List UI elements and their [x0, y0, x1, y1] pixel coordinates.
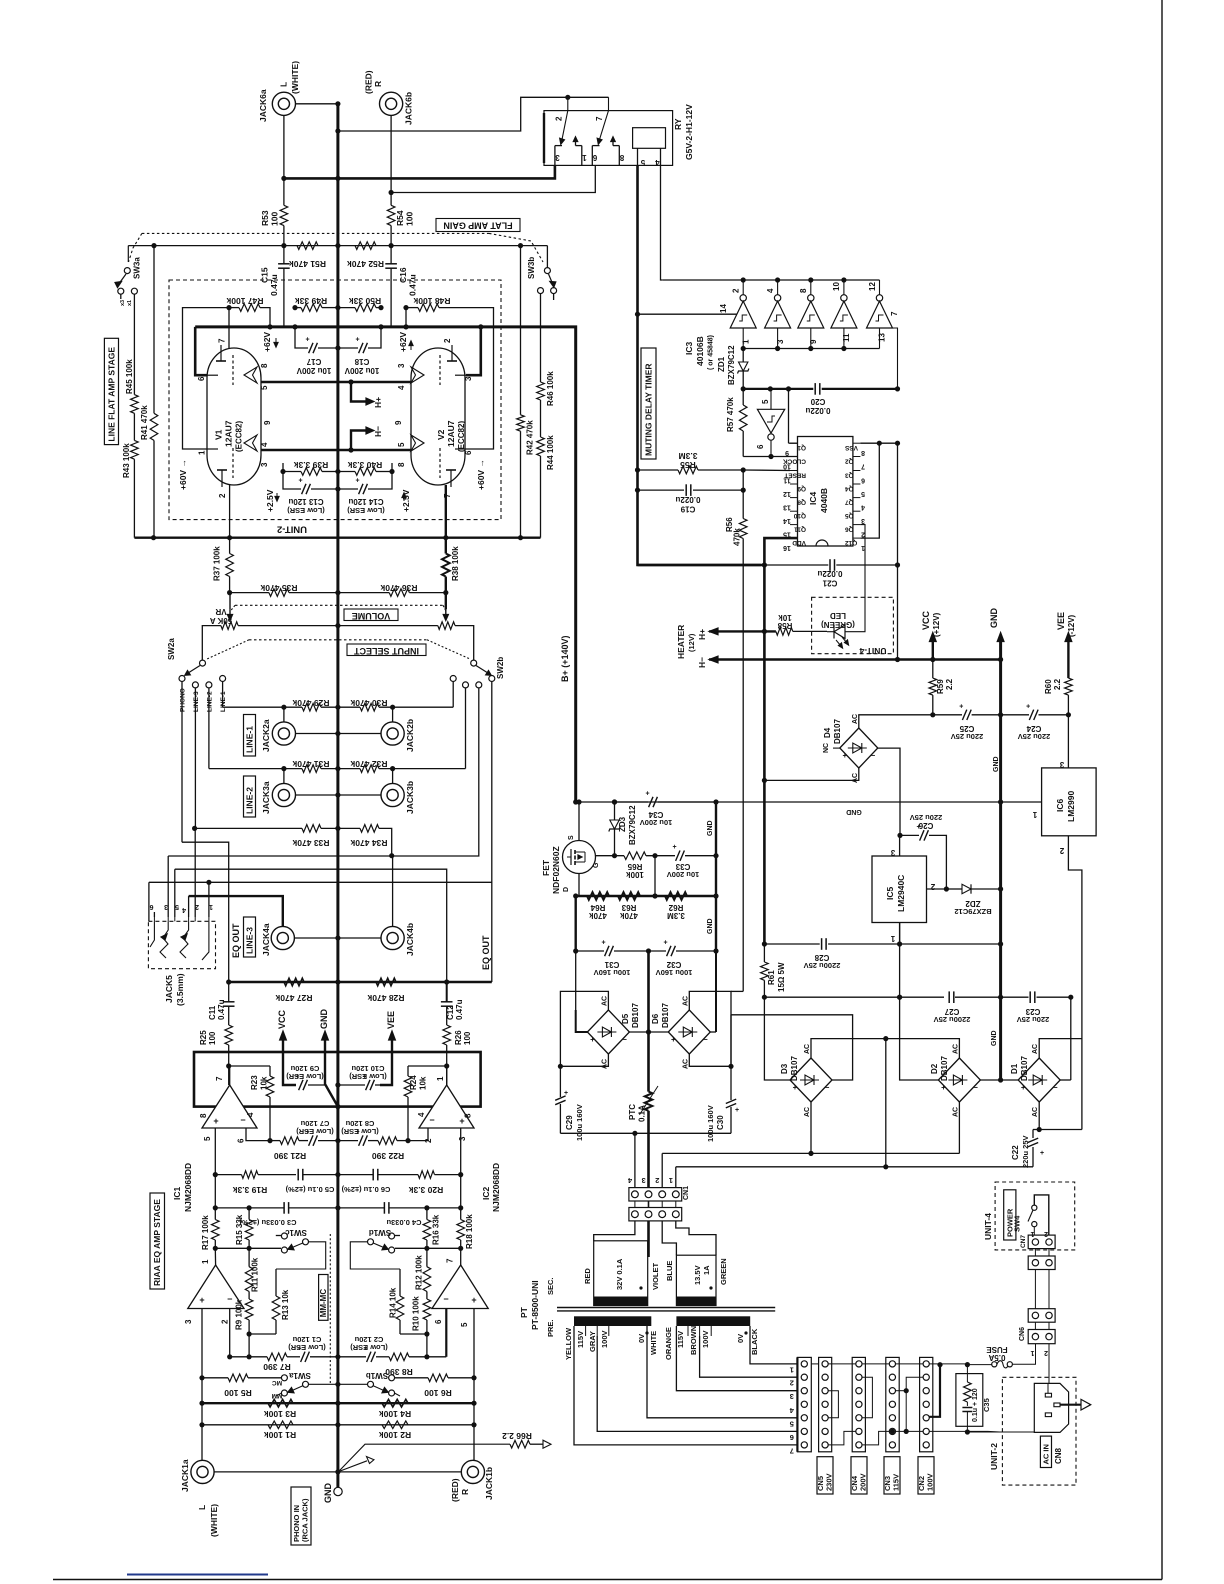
- switch SW4: [1032, 1205, 1037, 1210]
- jack JACK4a: [271, 926, 294, 949]
- wire x885 column: [885, 1039, 887, 1167]
- resistor R36: [389, 589, 409, 597]
- resistor R25: [225, 1025, 233, 1045]
- relay contact b: [600, 97, 609, 139]
- svg-text:GRAY: GRAY: [588, 1331, 597, 1352]
- svg-text:100u 160V: 100u 160V: [594, 968, 631, 977]
- svg-text:+: +: [298, 478, 302, 485]
- connector pair mid: [1028, 1309, 1055, 1323]
- svg-text:R10 100k: R10 100k: [412, 1296, 421, 1331]
- svg-text:(12V): (12V): [687, 633, 696, 652]
- jack JACK1b: [461, 1460, 484, 1483]
- svg-text:C20: C20: [810, 397, 825, 406]
- ground PHONO GND lug: [334, 1487, 342, 1495]
- svg-text:C16: C16: [398, 267, 408, 283]
- capacitor C26: [900, 834, 919, 836]
- svg-text:C11: C11: [208, 1005, 217, 1020]
- svg-text:R49 33k: R49 33k: [295, 296, 327, 306]
- wire LINE-3 row (R33/R34): [194, 688, 196, 828]
- svg-text:SW4: SW4: [1013, 1215, 1022, 1232]
- svg-text:+: +: [941, 1083, 946, 1092]
- svg-text:NJM2068DD: NJM2068DD: [183, 1163, 193, 1212]
- wire power GND bus (right vertical): [999, 637, 1002, 1080]
- svg-text:(Low ESR): (Low ESR): [296, 1127, 334, 1136]
- wire row6 to AC inlet: [988, 1430, 1000, 1433]
- svg-text:MM-MC: MM-MC: [319, 1289, 328, 1318]
- svg-text:R38 100k: R38 100k: [451, 546, 460, 581]
- svg-text:R31 470k: R31 470k: [292, 759, 329, 769]
- svg-text:(ECC82): (ECC82): [235, 421, 244, 452]
- wire D1 plus: [1001, 1079, 1019, 1081]
- svg-text:GND: GND: [991, 1030, 998, 1046]
- svg-text:3: 3: [776, 339, 785, 344]
- connector CN2: [920, 1357, 933, 1451]
- svg-text:VSS: VSS: [844, 444, 858, 451]
- svg-text:4: 4: [766, 288, 775, 293]
- svg-text:R33 470k: R33 470k: [292, 838, 329, 848]
- resistor R49: [301, 304, 322, 312]
- svg-text:R35 470k: R35 470k: [260, 583, 297, 593]
- wire main ground bus (center vertical): [336, 104, 339, 1487]
- arrow H+ supply: [709, 628, 718, 635]
- wire jack5 bundle y856: [168, 688, 479, 856]
- svg-text:100u 160V: 100u 160V: [656, 968, 693, 977]
- svg-text:+: +: [1040, 1150, 1044, 1157]
- svg-text:(Low ESR): (Low ESR): [287, 506, 325, 515]
- svg-text:D4: D4: [823, 727, 832, 738]
- inverter IC3e: [876, 295, 882, 301]
- svg-text:100V: 100V: [926, 1473, 935, 1491]
- svg-text:2: 2: [1044, 1349, 1048, 1356]
- svg-text:R20 3.3k: R20 3.3k: [408, 1185, 443, 1195]
- svg-text:100u 160V: 100u 160V: [706, 1105, 715, 1142]
- svg-text:6: 6: [592, 153, 597, 162]
- wire relay pin5 down (thick): [638, 165, 761, 565]
- resistor R61: [761, 962, 769, 980]
- svg-text:R25: R25: [199, 1030, 208, 1045]
- svg-text:C29: C29: [565, 1115, 574, 1130]
- wire ripple right rail x716: [715, 802, 717, 951]
- label LINE-3 box: [244, 917, 256, 957]
- svg-text:+: +: [459, 1116, 464, 1126]
- wire pin5 column right: [473, 1309, 475, 1378]
- svg-text:MM: MM: [272, 1392, 283, 1399]
- svg-text:9: 9: [809, 339, 818, 344]
- wire feedback row y1248: [215, 1247, 281, 1249]
- resistor R64: [587, 892, 609, 900]
- svg-text:PT: PT: [519, 1306, 529, 1318]
- svg-text:(GREEN): (GREEN): [821, 620, 855, 629]
- svg-text:GND: GND: [319, 1009, 329, 1030]
- svg-text:7: 7: [446, 1258, 455, 1263]
- wire left R41 column top: [153, 246, 155, 414]
- svg-text:AC: AC: [682, 1059, 689, 1069]
- wire IC3 pin7 down: [893, 328, 898, 389]
- op-amp IC2 unit A (top): [419, 1085, 474, 1128]
- svg-text:H+: H+: [697, 629, 707, 640]
- svg-text:D: D: [563, 887, 570, 892]
- svg-text:BROWN: BROWN: [689, 1326, 698, 1355]
- svg-text:13: 13: [783, 504, 791, 511]
- fet FET NDF02N60Z ripple: [563, 841, 596, 874]
- arrow H- supply: [709, 656, 718, 663]
- svg-text:R26: R26: [454, 1030, 463, 1045]
- arrow chassis 1: [339, 1444, 511, 1471]
- label INPUT SELECT: [249, 639, 427, 641]
- resistor R53: [280, 205, 288, 225]
- svg-text:AC: AC: [601, 1059, 608, 1069]
- svg-text:R48 100k: R48 100k: [413, 296, 450, 306]
- svg-text:4040B: 4040B: [819, 488, 829, 513]
- capacitor C2: [338, 1356, 366, 1358]
- connector CN1 row1: [629, 1188, 682, 1201]
- wire LINE-2 row: [208, 688, 210, 769]
- wire VDD trace (thick): [764, 538, 797, 944]
- wire IC3 top bus: [662, 279, 879, 281]
- resistor R7: [267, 1353, 287, 1361]
- resistor R55: [678, 466, 698, 474]
- capacitor C14: [338, 488, 358, 490]
- connector CN1 row2: [629, 1208, 682, 1221]
- svg-text:3: 3: [555, 153, 560, 162]
- svg-text:GND: GND: [323, 1483, 333, 1504]
- wire B+ row corner to V1 pin6 (thick): [195, 327, 207, 375]
- svg-text:JACK6a: JACK6a: [258, 89, 268, 122]
- svg-text:8: 8: [799, 288, 808, 293]
- svg-text:220u 25V: 220u 25V: [1017, 1015, 1050, 1024]
- jack JACK2a: [272, 722, 295, 745]
- svg-text:VCC: VCC: [277, 1009, 287, 1029]
- label FLAT AMP GAIN: [436, 219, 520, 232]
- svg-text:C30: C30: [716, 1115, 725, 1130]
- svg-text:+: +: [213, 1116, 218, 1126]
- svg-text:JACK1b: JACK1b: [484, 1467, 494, 1500]
- capacitor C21: [764, 564, 828, 566]
- svg-text:15Ω 5W: 15Ω 5W: [777, 962, 786, 992]
- IC IC4 4040B: [798, 437, 853, 547]
- svg-text:R64: R64: [590, 903, 605, 912]
- svg-text:5: 5: [761, 399, 770, 404]
- node selector contacts left: [179, 676, 185, 682]
- wire gang dotted flat-amp: [142, 232, 489, 234]
- svg-text:S: S: [568, 835, 575, 840]
- svg-text:GND: GND: [707, 918, 714, 934]
- svg-text:2: 2: [1059, 846, 1064, 855]
- svg-text:+: +: [663, 940, 667, 947]
- wire D3 minus: [731, 1015, 853, 1080]
- svg-text:6: 6: [197, 376, 206, 381]
- svg-text:SW1b: SW1b: [366, 1371, 388, 1380]
- wire gate row y855.7: [596, 855, 625, 857]
- resistor R5: [228, 1374, 248, 1382]
- jack JACK1a: [191, 1460, 214, 1483]
- svg-text:1: 1: [582, 153, 587, 162]
- svg-text:3.3M: 3.3M: [667, 911, 685, 920]
- svg-text:+: +: [355, 478, 359, 485]
- svg-text:FUSE: FUSE: [986, 1345, 1008, 1354]
- svg-text:C5 0.1u (±2%): C5 0.1u (±2%): [285, 1185, 334, 1194]
- resistor R58: [776, 628, 793, 636]
- svg-text:V1: V1: [214, 429, 224, 440]
- resistor R39: [301, 468, 322, 476]
- resistor R65: [624, 852, 646, 860]
- wire CN1 to transformer: [594, 1221, 635, 1241]
- svg-text:4: 4: [246, 1112, 255, 1117]
- svg-text:AC IN: AC IN: [1041, 1444, 1050, 1464]
- svg-text:4: 4: [260, 442, 269, 447]
- svg-text:GREEN: GREEN: [719, 1258, 728, 1285]
- svg-text:Q2: Q2: [845, 458, 854, 465]
- resistor R26: [443, 1025, 451, 1045]
- svg-text:10u 200V: 10u 200V: [296, 366, 331, 375]
- svg-text:1: 1: [436, 1076, 445, 1081]
- label LINE FLAT AMP STAGE: [104, 338, 118, 444]
- resistor R17: [212, 1220, 220, 1241]
- svg-text:1: 1: [1030, 1349, 1034, 1356]
- svg-text:D3: D3: [780, 1063, 789, 1074]
- svg-text:3: 3: [164, 903, 168, 910]
- svg-text:10u 200V: 10u 200V: [640, 818, 673, 827]
- wire CN6 chain: [1048, 1344, 1050, 1384]
- capacitor C28: [821, 938, 823, 950]
- potentiometer VR right: [445, 593, 447, 610]
- wire D2 minus: [980, 1079, 1000, 1081]
- svg-text:9: 9: [394, 420, 403, 425]
- svg-text:0.47u: 0.47u: [269, 274, 279, 296]
- svg-text:R2 100k: R2 100k: [379, 1430, 411, 1440]
- svg-text:GND: GND: [707, 820, 714, 836]
- resistor R1: [268, 1421, 293, 1429]
- svg-text:D5: D5: [621, 1013, 630, 1024]
- svg-text:IC2: IC2: [481, 1187, 491, 1201]
- svg-text:220u 25V: 220u 25V: [1018, 732, 1051, 741]
- svg-text:10u 200V: 10u 200V: [344, 366, 379, 375]
- svg-text:+: +: [1026, 703, 1030, 710]
- svg-text:7: 7: [443, 493, 452, 498]
- wire R9/R13 join: [248, 1320, 250, 1334]
- svg-text:100: 100: [463, 1031, 472, 1045]
- svg-text:C6 0.1u (±2%): C6 0.1u (±2%): [341, 1185, 390, 1194]
- svg-text:LINE-3: LINE-3: [193, 691, 200, 712]
- jack JACK6b: [380, 92, 403, 115]
- svg-text:−: −: [870, 751, 875, 760]
- svg-text:3: 3: [184, 1319, 193, 1324]
- svg-text:R52 470k: R52 470k: [347, 259, 384, 269]
- label PHONO IN box: [291, 1487, 311, 1545]
- wire CN2 1-5 jumper (thick): [929, 1365, 940, 1417]
- capacitor C13: [283, 472, 301, 490]
- svg-text:R37 100k: R37 100k: [213, 546, 222, 581]
- svg-text:R43 100k: R43 100k: [122, 443, 131, 478]
- capacitor C29: [559, 1066, 561, 1097]
- svg-text:R16 33k: R16 33k: [432, 1214, 441, 1245]
- resistor R3: [268, 1399, 293, 1407]
- wire jack5 bundle y869: [175, 869, 447, 982]
- connector JACK5 (3.5mm): [148, 921, 215, 968]
- svg-text:−: −: [240, 1115, 245, 1125]
- zener ZD3: [614, 802, 616, 820]
- svg-text:(3.5mm): (3.5mm): [175, 973, 185, 1006]
- switch SW1b: [389, 1375, 395, 1381]
- svg-text:3: 3: [464, 376, 473, 381]
- svg-text:9: 9: [263, 420, 272, 425]
- svg-text:2: 2: [218, 493, 227, 498]
- resistor R45 R43 chain: [133, 300, 135, 395]
- svg-text:C4 0.033u: C4 0.033u: [386, 1218, 421, 1227]
- wire row6 fuse line: [896, 1430, 924, 1432]
- wire clock row: [743, 456, 797, 458]
- svg-text:FLAT AMP GAIN: FLAT AMP GAIN: [443, 221, 512, 231]
- svg-text:PTC: PTC: [628, 1104, 637, 1120]
- svg-text:−: −: [973, 1083, 978, 1092]
- svg-text:DB107: DB107: [661, 1003, 670, 1028]
- resistor R20: [418, 1171, 435, 1179]
- svg-text:2200u 25V: 2200u 25V: [804, 961, 841, 970]
- svg-text:6: 6: [434, 1319, 443, 1324]
- wire D5 minus to bus: [629, 1031, 649, 1033]
- svg-text:3: 3: [890, 848, 895, 857]
- svg-text:JACK4a: JACK4a: [261, 923, 271, 956]
- wire FET drain/source: [578, 802, 580, 841]
- svg-text:12: 12: [868, 282, 877, 291]
- wire row R1/R2: [202, 1424, 474, 1426]
- resistor R13: [272, 1296, 280, 1320]
- svg-text:DB107: DB107: [790, 1056, 799, 1081]
- svg-text:7: 7: [215, 1076, 224, 1081]
- resistor R8: [389, 1353, 409, 1361]
- resistor R24: [404, 1076, 412, 1097]
- svg-text:1A: 1A: [702, 1265, 711, 1275]
- wire primary routing: [574, 1326, 797, 1445]
- wire LINE-1 row: [222, 682, 224, 708]
- connector CN6: [1028, 1330, 1055, 1344]
- svg-text:LINE FLAT AMP STAGE: LINE FLAT AMP STAGE: [106, 347, 116, 442]
- svg-text:10k: 10k: [419, 1076, 428, 1090]
- wire pin3 column: [201, 1309, 203, 1378]
- svg-text:14: 14: [783, 517, 791, 524]
- svg-text:C18: C18: [354, 357, 369, 366]
- svg-text:220u 25V: 220u 25V: [1021, 1135, 1030, 1168]
- svg-text:6: 6: [464, 450, 473, 455]
- svg-text:7: 7: [790, 1446, 794, 1455]
- svg-text:3: 3: [458, 1136, 467, 1141]
- svg-text:8: 8: [199, 1113, 208, 1118]
- wire IC6 pin2 to D1: [1068, 836, 1082, 1130]
- svg-text:GND: GND: [989, 608, 999, 629]
- svg-text:(Low ESR): (Low ESR): [288, 1343, 326, 1352]
- bridge D6 DB107: [668, 1010, 710, 1054]
- svg-text:200V: 200V: [859, 1473, 868, 1491]
- wire pin2 to C1 row: [229, 1309, 231, 1357]
- svg-text:+62V: +62V: [398, 332, 408, 352]
- svg-text:JACK6b: JACK6b: [404, 92, 414, 125]
- svg-text:AC: AC: [952, 1044, 959, 1054]
- svg-text:−: −: [622, 1035, 627, 1044]
- wire CN5.7 to CN4.6: [828, 1431, 856, 1445]
- switch SW1c: [281, 1233, 287, 1239]
- relay coil pins: [637, 148, 639, 165]
- svg-text:R1 100k: R1 100k: [264, 1430, 296, 1440]
- svg-text:R28 470k: R28 470k: [367, 993, 404, 1003]
- svg-text:C8 120u: C8 120u: [345, 1119, 374, 1128]
- svg-text:C21: C21: [822, 579, 837, 588]
- svg-text:11: 11: [842, 333, 851, 342]
- svg-text:6: 6: [237, 1138, 246, 1143]
- svg-text:SW3b: SW3b: [527, 257, 536, 279]
- bridge D1 DB107: [1018, 1058, 1060, 1102]
- svg-text:2: 2: [790, 1379, 794, 1388]
- resistor R9: [245, 1299, 253, 1320]
- svg-text:+60V →: +60V →: [476, 459, 486, 490]
- svg-text:UNIT-2: UNIT-2: [989, 1443, 999, 1470]
- svg-text:R45 100k: R45 100k: [125, 359, 134, 394]
- label VOLUME: [235, 604, 443, 606]
- arrow AC earth: [1060, 1404, 1081, 1406]
- wire CN2.2 to CN3 ties: [906, 1377, 923, 1431]
- svg-text:C2 120u: C2 120u: [354, 1335, 383, 1344]
- svg-text:(RED): (RED): [364, 70, 374, 94]
- resistor R62: [665, 892, 687, 900]
- svg-text:+: +: [959, 703, 963, 710]
- IC IC6 LM2990: [1042, 768, 1097, 836]
- wire strip row1: [811, 1363, 819, 1365]
- svg-text:13: 13: [878, 333, 887, 342]
- wire H- line (thick): [709, 658, 1001, 661]
- svg-text:Q7: Q7: [845, 499, 854, 506]
- resistor R34: [360, 825, 379, 833]
- svg-text:SW3a: SW3a: [133, 257, 142, 279]
- svg-text:GND: GND: [993, 756, 1000, 772]
- svg-text:115V: 115V: [676, 1331, 685, 1348]
- capacitor C11: [228, 982, 230, 1002]
- resistor R66: [510, 1440, 530, 1448]
- resistor R21: [280, 1137, 299, 1145]
- wire D1 minus: [1060, 1079, 1071, 1081]
- wire GND column x897: [897, 443, 899, 565]
- svg-text:2: 2: [1044, 1230, 1048, 1237]
- label LINE-2: [244, 776, 256, 817]
- capacitor C34: [612, 799, 617, 804]
- svg-text:R30 470k: R30 470k: [350, 698, 387, 708]
- switch SW1d: [389, 1233, 395, 1239]
- resistor R41: [150, 413, 158, 440]
- label MUTING DELAY TIMER: [641, 348, 656, 459]
- svg-text:(RED): (RED): [450, 1478, 460, 1502]
- svg-text:AC: AC: [1032, 1044, 1039, 1054]
- svg-text:7: 7: [890, 311, 899, 316]
- capacitor C15: [283, 246, 285, 264]
- svg-text:C23: C23: [1025, 1007, 1040, 1016]
- svg-text:DB107: DB107: [833, 719, 842, 744]
- svg-text:R41 470k: R41 470k: [140, 405, 149, 440]
- svg-text:R47 100k: R47 100k: [226, 296, 263, 306]
- svg-text:R36 470k: R36 470k: [380, 583, 417, 593]
- connector CN5: [819, 1357, 832, 1451]
- IC IC5 LM2940C: [872, 856, 927, 923]
- wire center-tap bus down: [647, 951, 650, 1092]
- svg-text:NDF02N60Z: NDF02N60Z: [551, 846, 561, 894]
- svg-text:0.47u: 0.47u: [217, 999, 226, 1020]
- wire jack5 pin2: [194, 828, 196, 917]
- svg-text:H−: H−: [697, 657, 707, 668]
- wire R10/R14 join: [426, 1320, 428, 1334]
- svg-text:470k: 470k: [620, 911, 638, 920]
- wire V2 cathode down (thick): [445, 485, 447, 538]
- svg-text:470k: 470k: [589, 911, 607, 920]
- svg-text:0.022u: 0.022u: [805, 406, 830, 415]
- svg-text:R13 10k: R13 10k: [281, 1289, 290, 1320]
- svg-text:JACK3a: JACK3a: [261, 781, 271, 814]
